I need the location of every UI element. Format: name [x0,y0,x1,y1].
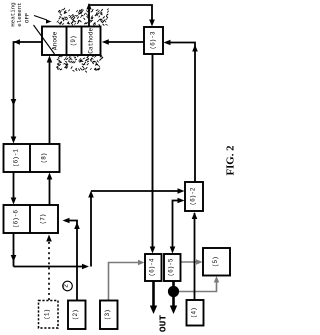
svg-text:OUT: OUT [158,315,169,333]
svg-text:(6)-1: (6)-1 [13,149,20,167]
wire: (6)-3 down to (6)-4 [152,54,154,249]
svg-text:(3): (3) [104,309,111,320]
wire: elbow between (6)-5 top and (6)-2 [173,201,181,250]
OUT arrow from (6)-4 [152,281,155,306]
box (2) [68,301,86,330]
box (6)-3 [144,27,163,54]
box (6)-5 [164,254,181,281]
gray wire (6)-5 to (5) [180,261,198,263]
svg-text:(2): (2) [72,309,79,320]
svg-text:(6)-4: (6)-4 [149,258,156,276]
wire: (6)-1 down to (6)-6 [13,172,15,200]
dotted wire (1) to (7) [48,241,50,300]
box (6)-6 / (7) [4,205,59,233]
box (6)-1 / (8) [4,144,60,172]
wire: (8) top up into anode box bottom [49,60,51,144]
OUT arrow from junction [172,281,175,306]
heating glow stipple upper [57,8,110,27]
svg-text:(7): (7) [40,214,47,225]
gray wire junction to (5) bottom [179,281,217,292]
svg-text:element: element [16,2,23,26]
svg-text:(4): (4) [191,307,198,318]
svg-text:(5): (5) [212,256,219,267]
svg-text:(6)-3: (6)-3 [150,31,157,49]
svg-text:(1): (1) [44,309,51,320]
box (6)-4 [145,254,162,281]
svg-text:(6)-2: (6)-2 [190,187,197,205]
wire: (6)-2 up to (6)-3 [168,43,195,183]
wire: (6)-3 output to cathode [107,41,145,43]
leader line to lower stipple [34,25,55,54]
svg-text:Cathode: Cathode [87,28,94,54]
svg-text:FIG. 2: FIG. 2 [225,146,237,176]
svg-text:(8): (8) [41,153,48,164]
svg-text:(9): (9) [70,35,77,46]
gray wire (3) to (6)-4 [109,263,141,301]
box (5) [203,248,230,276]
box (6)-2 [185,182,203,211]
lamp box Anode (9) Cathode [42,27,101,56]
wire: cathode top to (6)-3 input [89,5,152,27]
box (4) [187,300,204,326]
wire: (4) up to (6)-2 [194,213,196,300]
junction dot [168,286,179,297]
leader arrow to upper stipple [34,16,47,21]
box (1) dashed [39,301,59,329]
circled 2 wire label [63,281,73,291]
svg-text:Anode: Anode [52,31,59,50]
svg-text:2: 2 [63,284,70,288]
svg-text:(6)-6: (6)-6 [13,210,20,228]
heating glow stipple lower [56,55,103,73]
wire: (7) up to (8) [49,177,51,205]
svg-text:OFF: OFF [23,12,30,23]
box (3) [100,301,118,330]
wire: anode left, down to (6)-1 [14,42,43,139]
wire: (6)-6 down, bottom run, up to (6)-2 [14,191,181,267]
svg-text:(6)-5: (6)-5 [168,258,175,276]
wire: (2) up, elbow into (7) [67,221,77,301]
